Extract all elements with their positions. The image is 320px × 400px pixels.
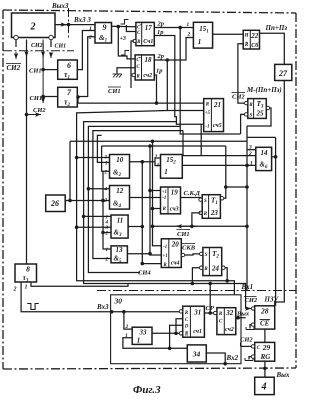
arrow crossing si1 (42, 44, 44, 57)
wire y141 long from 26 loop (70, 140, 247, 142)
inverted pin S of 25 (244, 113, 247, 116)
wire from -1 of 21 down (200, 124, 202, 155)
wire loop N5 (97, 135, 109, 162)
svg-text:СИ1: СИ1 (55, 44, 67, 50)
or-gate 15-2 (161, 155, 183, 179)
wire 19 out SKD to S23 (181, 198, 203, 200)
wire 12 out to 19 (130, 197, 161, 199)
wire R17 down (131, 41, 134, 88)
wire 20 out to S24 (185, 254, 200, 255)
wire loop N3 (88, 126, 180, 272)
svg-text:29: 29 (262, 343, 271, 352)
svg-text:СИ4: СИ4 (138, 270, 151, 277)
wire CE stub (250, 325, 251, 329)
wire 32 out (236, 317, 246, 319)
wire node to 14 pin3 (247, 149, 256, 151)
svg-text:СИ2: СИ2 (33, 107, 46, 114)
wire v152 to -1 of 20 (153, 141, 162, 246)
inverted pin S of 23 (199, 198, 202, 201)
wire y137 to 14 out vertical (247, 136, 276, 138)
wire 31 out to 32 (204, 312, 217, 314)
svg-text:СИ2: СИ2 (232, 94, 245, 101)
junction 14 pin1 column (245, 164, 249, 168)
junction y141 v152 (151, 140, 155, 144)
output pin of 25 (266, 106, 269, 109)
wire block6 out to 9 pin1 (77, 31, 95, 70)
t-symbol under 29 (245, 358, 253, 361)
junction Vx3 to 33 (122, 310, 126, 314)
arrow SI1 right down (50, 52, 52, 58)
inverted pin R2 of 31 (179, 332, 182, 335)
wire to 28 input (246, 308, 252, 310)
and-gate 10 (110, 155, 130, 179)
wire R22 loop to R25 (238, 44, 246, 103)
svg-text:13: 13 (116, 246, 124, 254)
wire SI1 to block 6 (43, 69, 58, 71)
inverted pin R of 17 (133, 39, 136, 42)
svg-text:СИ1: СИ1 (30, 95, 43, 102)
inverted pin 2 of 29 (251, 355, 254, 358)
svg-text:12: 12 (116, 187, 124, 195)
svg-text:СИ2: СИ2 (245, 297, 258, 304)
wire 1p18 to R21 (154, 75, 156, 103)
wire right column node (246, 126, 248, 291)
svg-text:17: 17 (145, 24, 153, 32)
wire branch 10 pin3 (77, 157, 110, 159)
counter 20 (SCh4) (161, 239, 181, 268)
svg-text:сч2: сч2 (225, 327, 234, 333)
wire 8 pin2 down (21, 282, 181, 312)
wire loop N2 (84, 122, 246, 309)
svg-text:26: 26 (50, 199, 59, 208)
arrow SI1 left (176, 225, 198, 227)
t-symbol under 28 (246, 327, 254, 330)
flip-flop 25 (T3) (248, 99, 266, 119)
svg-text:10: 10 (116, 156, 124, 164)
wire 26 out to 12 pin2 (65, 200, 109, 202)
and-gate 13 (111, 246, 127, 264)
svg-text:RG: RG (260, 353, 271, 361)
arrow SI2 left down (15, 52, 17, 59)
wire SI1 to block 7 (43, 96, 58, 98)
wire 2p18 branch to counter 21 (167, 60, 203, 111)
svg-text:Вх3 3: Вх3 3 (73, 16, 91, 24)
junction on 2p18 (166, 58, 170, 62)
svg-text:14: 14 (261, 149, 269, 157)
svg-text:Вх1: Вх1 (241, 283, 254, 291)
arrow on Vx3 wire (57, 24, 67, 26)
junction N1 branch 11pin3 (75, 225, 79, 229)
inner boundary dash-dot right (PZU unit) (97, 290, 296, 292)
junction 19 plus1 (148, 189, 152, 193)
svg-text:28: 28 (260, 307, 269, 316)
svg-text:4: 4 (261, 382, 267, 393)
svg-text:сч3: сч3 (170, 207, 179, 213)
wire SI2 long vertical (26, 40, 28, 265)
wire v103 (103, 171, 111, 249)
or-gate 15-1 (193, 22, 212, 48)
counter 19 (SCh3) (161, 187, 181, 214)
pulse waveform symbol (27, 304, 39, 310)
junction on 2p17 (178, 26, 182, 30)
svg-text:1: 1 (25, 285, 28, 291)
inverted input pin of 28 (251, 307, 254, 310)
wire R23 from SI1 line (192, 213, 201, 226)
svg-text:23: 23 (210, 209, 219, 217)
svg-text:сч2: сч2 (143, 73, 152, 79)
wire 24 out loop (225, 268, 227, 281)
pulse flag near 17 (121, 20, 129, 25)
wire 2p17 to element 15-1 (154, 27, 193, 29)
svg-text:СЕ: СЕ (260, 320, 270, 328)
svg-text:20: 20 (171, 241, 180, 249)
unit box 30 (111, 295, 241, 364)
svg-text:Сб: Сб (251, 42, 259, 49)
svg-text:Вх3: Вх3 (96, 303, 109, 311)
junction Vx2 (223, 362, 227, 366)
svg-text:3: 3 (248, 145, 252, 151)
junction 26 wire x70 (68, 199, 72, 203)
unit 34 (187, 345, 206, 362)
wire C pin 18 to ground (117, 68, 135, 74)
wire from 7-out to R21 line (77, 97, 79, 103)
junction SR (208, 311, 212, 315)
svg-text:Пп+Пз: Пп+Пз (265, 24, 288, 32)
wire 22 to 27 (260, 33, 285, 64)
junction R24 loop (191, 282, 195, 286)
one-shot 6 (tau1) (58, 60, 78, 80)
wire SI1 line (153, 225, 248, 227)
junction 19R on v152 (151, 207, 155, 211)
svg-text:33: 33 (139, 329, 148, 337)
wire 14 pin1 from 15-2 out (182, 164, 256, 166)
wire SI2 left (15, 40, 17, 48)
ROM 28 (PZU) (255, 306, 275, 329)
overline CE (260, 319, 271, 321)
svg-text:Вх2: Вх2 (226, 354, 239, 362)
svg-text:32: 32 (225, 309, 234, 317)
inverted pin CE of 28 (251, 323, 254, 326)
ground near 18 (113, 74, 123, 78)
junction node on 9 output (117, 25, 121, 29)
svg-text:СИ2: СИ2 (240, 337, 253, 344)
svg-text:-1: -1 (163, 245, 167, 250)
inverted pin R of 24 (200, 266, 203, 269)
junction SR top (208, 282, 212, 286)
wire R21 long line (78, 102, 204, 104)
flip-flop 24 (T2) (203, 248, 222, 276)
svg-text:25: 25 (256, 110, 265, 118)
wire block7 out to 9 pin2 (77, 37, 95, 97)
wire 2p18 to 15-1 pin2 (154, 38, 193, 61)
inverted pin R of 31 (179, 310, 182, 313)
svg-text:S: S (204, 199, 207, 204)
counter 18 (SCh2) (135, 55, 154, 80)
svg-text:Вых3: Вых3 (51, 2, 69, 10)
block 2 (12, 13, 56, 38)
svg-text:СИ1: СИ1 (108, 88, 121, 95)
wire block2 to node (55, 24, 95, 26)
wire 2p17 branch down (180, 28, 240, 135)
wire 33 pin1 from 34 (123, 338, 187, 349)
junction 11 out (141, 225, 145, 229)
svg-text:22: 22 (250, 32, 259, 40)
wire SR up (209, 284, 211, 314)
wire 14 out vertical (275, 137, 277, 305)
wire 25 out loop (247, 108, 271, 126)
svg-text:34: 34 (192, 350, 201, 359)
wire 28 to 29 (264, 329, 266, 342)
junction SI2 stub (25, 113, 29, 117)
svg-text:S: S (205, 253, 208, 258)
wire 33 pin2 (124, 312, 132, 329)
wire branch to 11 pin3 (77, 226, 111, 228)
junction on border (263, 367, 267, 371)
svg-text:21: 21 (213, 101, 221, 109)
wire v101 to 10 pin2 (102, 146, 110, 171)
svg-text:ПЗУ: ПЗУ (264, 296, 280, 304)
and-gate 9 (95, 23, 112, 44)
wire SI1 right stub (50, 40, 52, 48)
and-gate 14 (256, 147, 272, 170)
counter 21 (SCh5) (204, 99, 224, 132)
counter 17 (SCh1) (136, 22, 154, 45)
junction 24 out on bottom line (225, 279, 229, 283)
wire to S25 up (241, 114, 247, 134)
svg-text:2: 2 (13, 287, 17, 293)
svg-text:1: 1 (198, 38, 202, 46)
svg-text:19: 19 (171, 189, 179, 197)
junction near R20 (141, 262, 145, 266)
junction N3 branch 12pin4 (87, 187, 91, 191)
junction 32 out (236, 316, 240, 320)
svg-text:Сч1: Сч1 (143, 39, 153, 45)
wire C29 vertical (240, 343, 242, 347)
svg-text:27: 27 (278, 69, 288, 78)
junction 23 out branch (224, 185, 228, 189)
wire loop N4 (93, 131, 183, 259)
wire 15-2 pin1 jog (155, 162, 161, 166)
wire 19 plus1 from v150 (150, 190, 161, 192)
wire R24 stub (192, 268, 199, 284)
node Vyx3 vertical dash-dot (68, 8, 70, 40)
junction SI1 to 6 (41, 68, 45, 72)
wire C pin 17 stub (126, 25, 135, 32)
wire 10 out to 15-2 (130, 161, 156, 163)
junction N6 12pin2 vertical (101, 199, 105, 203)
or-gate 33 (132, 327, 152, 344)
inverted pin C of 29 (251, 345, 254, 348)
inverted pin R of 25 (244, 101, 247, 104)
flip-flop 23 (T1) (202, 195, 220, 219)
svg-text:2р: 2р (157, 53, 165, 60)
junction SI1 line left (151, 225, 155, 229)
output pin of 23 (220, 197, 223, 200)
svg-text:сч5: сч5 (213, 123, 222, 129)
arrow SI2 stub (27, 114, 42, 116)
svg-text:1: 1 (137, 337, 141, 345)
junction N2 branch 11pin1 (82, 215, 86, 219)
svg-text:2: 2 (187, 32, 191, 38)
svg-text:2р: 2р (157, 21, 165, 28)
wire v150 to plus1 20 (150, 146, 161, 255)
terminal of block 2 left (14, 35, 18, 39)
svg-text:31: 31 (193, 309, 201, 317)
svg-text:+1: +1 (162, 190, 167, 195)
wire 10out vertical to 11out line (142, 162, 161, 264)
junction R23 SI1 (190, 225, 194, 229)
wire 14 pin2 long (183, 155, 256, 157)
and-gate 11 (111, 215, 128, 238)
svg-text:30: 30 (114, 297, 123, 306)
terminal of block 2 right (49, 35, 53, 39)
wire 33 out to C31 (152, 319, 183, 334)
svg-text:сч1: сч1 (193, 329, 202, 335)
wire 23 out branch right (226, 186, 247, 188)
svg-text:24: 24 (211, 265, 220, 273)
svg-text:-1: -1 (205, 124, 209, 129)
wire branch to 12 pin4 (88, 188, 109, 190)
svg-text:СР: СР (206, 305, 215, 312)
svg-text:С.К.Д: С.К.Д (184, 190, 201, 197)
one-shot 8 (tau3) (15, 264, 37, 283)
svg-text:11: 11 (117, 217, 124, 225)
and-gate 12 (110, 186, 130, 210)
svg-text:D: D (184, 325, 189, 330)
svg-text:1р: 1р (156, 68, 163, 75)
wire 15-1 out to 22 (213, 33, 244, 35)
svg-text:СИ1: СИ1 (177, 231, 190, 238)
svg-text:+3: +3 (120, 36, 126, 42)
unit 22 (Sb) (243, 30, 259, 49)
svg-text:сч4: сч4 (171, 261, 180, 267)
svg-text:S: S (250, 114, 253, 119)
svg-text:1: 1 (164, 168, 168, 176)
svg-text:+1: +1 (163, 254, 168, 259)
wire SI2 to C29 (241, 345, 252, 347)
junction on right column (245, 185, 249, 189)
junction on 7 out (76, 95, 80, 99)
svg-text:4: 4 (105, 220, 109, 225)
junction staircase R21 (155, 101, 159, 105)
svg-text:+5: +5 (205, 111, 211, 116)
junction 26 wire x103 (101, 199, 105, 203)
junction 10 out (141, 160, 145, 164)
wire 29 out to 4 (264, 361, 266, 377)
junction SI1 to 7 (41, 95, 45, 99)
wire 9 out to counter 17 (112, 25, 136, 28)
svg-text:1: 1 (89, 26, 92, 32)
junction Vx3 on box edge (110, 310, 114, 314)
inverted pin R of 18 (132, 73, 135, 76)
wire loop N1 (77, 111, 235, 295)
svg-text:СИ2: СИ2 (31, 43, 43, 49)
wire 23 out up (224, 146, 226, 198)
wire 1p17 down-right (154, 36, 203, 125)
junction 14 output (274, 155, 278, 159)
unit 27 (275, 64, 292, 80)
junction 34 wire (168, 347, 172, 351)
counter 32 (SCh2) (217, 308, 236, 335)
junction on N1 10pin3 (75, 156, 79, 160)
wire SI1 vertical with arrow (42, 40, 44, 104)
inverted pin R of 32 (214, 311, 217, 314)
wire Vx2 to 34 (206, 353, 225, 364)
junction v103 11pin2 (101, 231, 105, 235)
svg-text:8: 8 (26, 265, 30, 274)
wire 11 out (128, 226, 143, 228)
arrow into 28 (246, 308, 251, 310)
junction Vyx3 (67, 23, 71, 27)
wire loop L1 from 26 (69, 141, 71, 200)
svg-text:СИ1: СИ1 (29, 68, 42, 75)
arrow crossing si2 (26, 44, 28, 57)
svg-text:18: 18 (145, 56, 153, 64)
svg-text:СИ2: СИ2 (7, 64, 21, 72)
unit 26 (46, 195, 65, 212)
wire 15-2 pin2 jog (155, 158, 161, 162)
junction 33 out row (174, 332, 178, 336)
wire 34 branch to D31 (170, 325, 183, 348)
svg-text:1: 1 (187, 22, 190, 28)
register 29 (RG) (255, 342, 275, 361)
junction 13 out on v150 (148, 252, 152, 256)
svg-text:Вых: Вых (276, 371, 291, 379)
wire 13 out (127, 253, 150, 255)
wire 14 output (272, 156, 276, 158)
svg-text:-1: -1 (162, 196, 166, 201)
svg-text:2: 2 (30, 22, 36, 33)
counter 31 (SCh1) (183, 306, 205, 337)
junction v150 on 23-out line (148, 144, 152, 148)
junction SI1 right (245, 225, 249, 229)
unit 4 (255, 377, 275, 394)
svg-text:М-(Пп+Пз): М-(Пп+Пз) (246, 86, 282, 94)
inverted pin S of 24 (200, 252, 203, 255)
svg-text:6: 6 (67, 61, 71, 70)
output pin of 20 (181, 253, 184, 256)
output pin of 24 (222, 266, 225, 269)
wire 27 down (275, 81, 285, 306)
wire to R-bar of 31 (176, 332, 179, 334)
pulse flag near 18 (121, 51, 129, 56)
svg-text:2: 2 (88, 35, 92, 41)
inverted pin R of 23 (199, 211, 202, 214)
one-shot 7 (tau2) (58, 87, 78, 108)
svg-text:9: 9 (103, 23, 107, 32)
svg-text:Вых: Вых (236, 311, 250, 318)
wire branch to 11 pin1 (84, 215, 111, 217)
wire branch 11pin2 (103, 232, 111, 234)
wire 23 out long line (102, 145, 226, 147)
wire 8 pin1 down-right (31, 282, 128, 286)
svg-text:3: 3 (104, 156, 108, 161)
wire 19 R stub (153, 208, 161, 210)
wire N4 to 14 pin2 (182, 131, 184, 156)
wire 29 pin2 stub (249, 357, 251, 360)
wire node down to counter 18 (118, 27, 135, 59)
svg-text:СКВ: СКВ (182, 245, 196, 252)
svg-text:Фиг.3: Фиг.3 (133, 384, 161, 396)
boundary dash-dot under block 2 (3, 50, 74, 52)
